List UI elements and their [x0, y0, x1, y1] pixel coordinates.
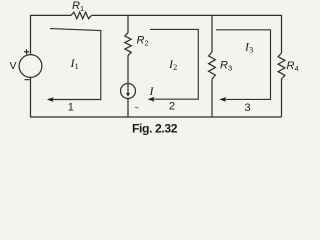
svg-text:1: 1: [68, 102, 74, 114]
resistor R2: [125, 33, 149, 56]
svg-text:Fig. 2.32: Fig. 2.32: [132, 122, 178, 136]
wire top segment R2 node to R3 node: [128, 14, 212, 16]
wire left branch lower: [30, 77, 32, 117]
wire R2 branch upper: [127, 15, 129, 32]
svg-text:R1: R1: [72, 0, 84, 13]
wire right branch upper: [281, 15, 283, 53]
svg-text:R3: R3: [220, 60, 232, 73]
wire right branch lower: [281, 79, 283, 117]
wire left branch upper: [30, 15, 32, 55]
resistor R1: [71, 0, 92, 19]
wire R3 branch upper: [211, 15, 213, 52]
svg-text:R2: R2: [137, 35, 149, 48]
mesh arrow loop 3: [216, 30, 271, 102]
wire R3 branch lower: [211, 79, 213, 117]
resistor R4: [278, 53, 299, 79]
svg-text:I: I: [149, 84, 155, 98]
wire R2 to current source: [127, 56, 129, 84]
current source I: [121, 84, 139, 109]
wire top-left segment: [30, 14, 71, 16]
mesh arrow loop 2: [148, 29, 199, 101]
svg-text:2: 2: [169, 101, 175, 113]
svg-text:I2: I2: [168, 57, 177, 72]
svg-text:R4: R4: [287, 60, 299, 73]
svg-text:I1: I1: [70, 56, 79, 71]
wire top segment R1 to R2 node: [92, 14, 129, 16]
wire top segment R3 node to top-right corner: [212, 14, 282, 16]
svg-text:3: 3: [245, 102, 251, 114]
svg-text:I3: I3: [244, 39, 253, 54]
mesh arrow loop 1: [47, 29, 101, 102]
resistor R3: [209, 52, 233, 79]
voltage source V: [10, 49, 42, 79]
wire current source to bottom rail: [127, 98, 129, 117]
wire bottom rail: [30, 116, 282, 118]
svg-text:V: V: [10, 60, 17, 72]
